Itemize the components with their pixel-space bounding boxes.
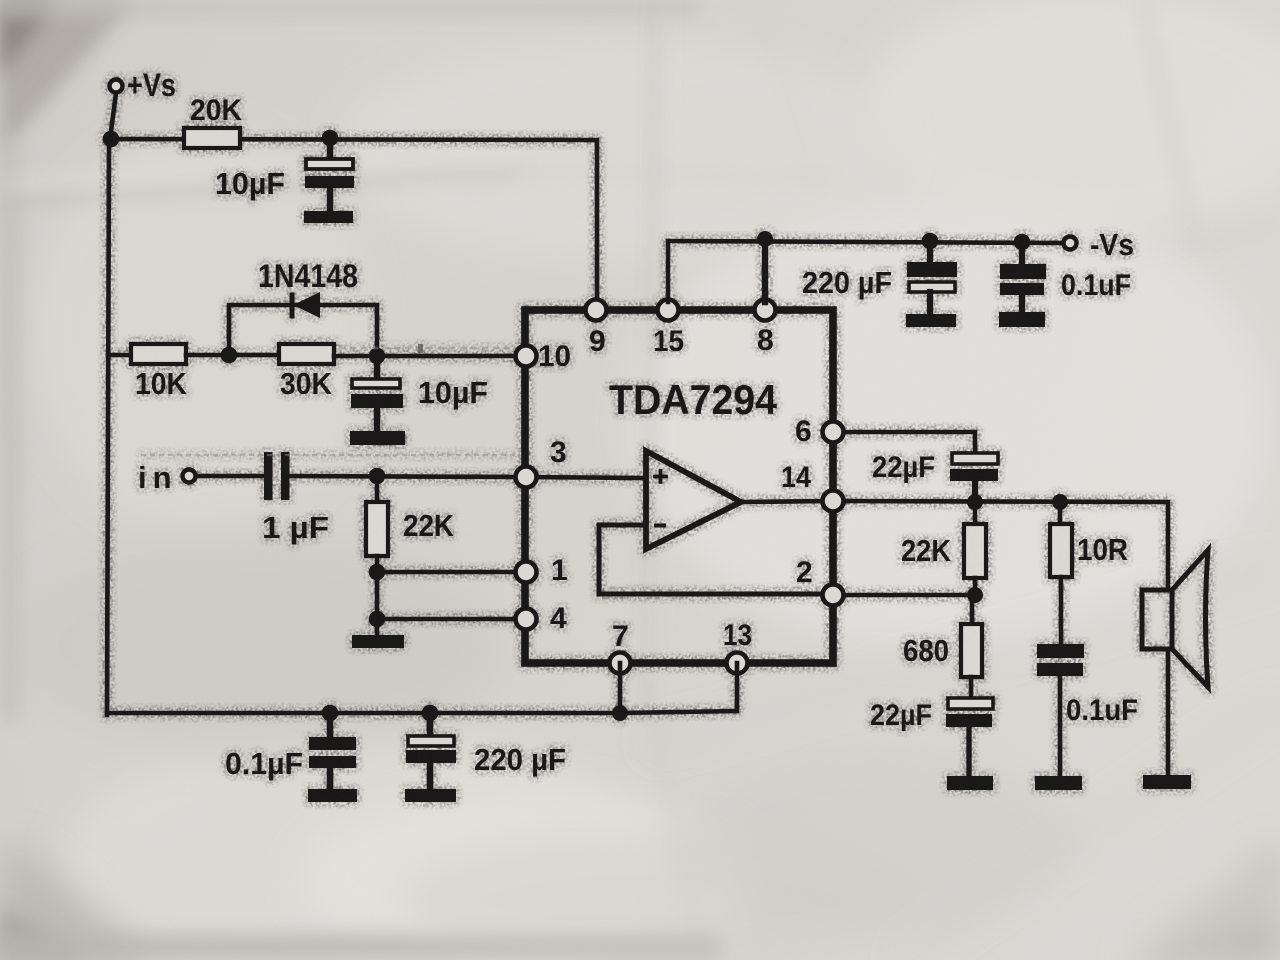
svg-text:in: in <box>138 460 178 495</box>
svg-text:10K: 10K <box>135 366 188 401</box>
resistor R6 10R vertical <box>1050 502 1072 644</box>
node junction C4 <box>922 233 939 250</box>
node junction pin8 / -Vs rail <box>757 231 773 247</box>
svg-text:15: 15 <box>653 325 684 358</box>
top-left corner shadow <box>0 0 135 155</box>
capacitor C1 10uF plates <box>305 139 354 211</box>
svg-text:10µF: 10µF <box>215 166 285 201</box>
wire pin6 to C6 <box>844 432 975 454</box>
capacitor C5 0.1uF <box>1000 242 1046 312</box>
label 22uF C6 <box>872 451 935 484</box>
label pin 2 <box>796 556 813 589</box>
svg-text:7: 7 <box>612 620 629 653</box>
resistor R7 680 vertical <box>961 595 982 698</box>
label 1uF <box>262 510 329 545</box>
wire pin8 drop (thick) <box>762 239 768 302</box>
node junction C10 <box>422 705 439 722</box>
label 22uF C7 <box>870 699 932 732</box>
pin 8 <box>755 300 776 321</box>
node junction C9 <box>322 705 339 722</box>
svg-text:TDA7294: TDA7294 <box>609 376 778 423</box>
wire C3 to pin3 <box>290 476 519 477</box>
wire pin7 drop <box>618 663 623 713</box>
resistor 10K <box>131 344 186 364</box>
wire pin3 to plus input <box>526 477 645 478</box>
svg-text:2: 2 <box>796 556 813 589</box>
label in <box>138 460 178 495</box>
wire 30K to pin10 <box>334 354 519 359</box>
label pin 13 <box>723 619 752 652</box>
label 0.1uF C5 <box>1061 269 1131 302</box>
wire pin14 to speaker rail <box>844 501 1168 590</box>
op-amp plus mark <box>655 471 666 482</box>
ground bar below C9 <box>308 789 357 802</box>
wire speaker to ground <box>1166 649 1171 776</box>
pin 2 <box>823 585 844 606</box>
pin 13 <box>727 653 748 674</box>
bottom edge band <box>0 934 720 960</box>
capacitor C2 10uF plates <box>351 356 403 432</box>
resistor R5 22K vertical <box>964 502 986 595</box>
capacitor C8 0.1uF <box>1037 644 1084 776</box>
capacitor C9 0.1uF <box>309 713 356 789</box>
wire -Vs rail horizontal <box>668 241 1063 243</box>
capacitor C3 1uF <box>264 452 290 500</box>
label pin 14 <box>781 461 811 494</box>
wire +Vs lead <box>110 93 116 139</box>
right top diagonal crease <box>1142 0 1196 246</box>
pin 10 <box>516 346 537 367</box>
label 20K <box>190 94 242 127</box>
node junction pin7 / bottom rail <box>612 705 628 721</box>
artifact dotted trail above pin10 wire <box>340 344 512 353</box>
label 10uF C1 <box>215 166 285 201</box>
svg-text:30K: 30K <box>280 366 333 401</box>
ground bar below C5 <box>999 312 1045 327</box>
label 10K <box>135 366 188 401</box>
op-amp U1a triangle <box>646 451 741 549</box>
label 22K R5 <box>901 533 952 568</box>
svg-text:9: 9 <box>589 325 606 358</box>
ground bar below C8 <box>1035 776 1082 790</box>
wire minus feedback loop to pin2 <box>599 525 830 594</box>
svg-text:13: 13 <box>723 619 752 652</box>
central vertical crease <box>648 0 656 700</box>
capacitor C10 220uF <box>406 713 456 789</box>
label pin 8 <box>757 324 774 357</box>
node junction diode right / C2 <box>369 348 386 365</box>
svg-text:680: 680 <box>903 633 949 668</box>
node junction pin1 wire <box>369 564 386 581</box>
pin 14 <box>823 491 844 512</box>
wire op-amp output to pin14 <box>741 501 832 502</box>
label 0.1uF C8 <box>1066 694 1138 727</box>
wire to pin1 <box>377 570 519 575</box>
wire pin13 drop <box>620 663 737 713</box>
wire in to C3 <box>196 474 264 479</box>
node junction diode left <box>221 347 238 364</box>
label pin 15 <box>653 325 684 358</box>
svg-text:+Vs: +Vs <box>127 67 176 103</box>
resistor R4 22K vertical <box>366 476 388 637</box>
ink layer <box>103 67 1208 802</box>
op-amp minus mark <box>656 524 664 528</box>
fold across upper left <box>0 170 520 200</box>
speaker LS1 <box>1142 550 1208 687</box>
node junction R5/680 <box>967 587 983 603</box>
node junction R6 10R on rail <box>1052 494 1068 510</box>
svg-text:10R: 10R <box>1077 532 1128 567</box>
wire bottom rail <box>107 711 620 716</box>
faint crease top middle <box>755 0 818 190</box>
IC U1 TDA7294 body <box>525 310 833 663</box>
diode D1 1N4148 <box>292 292 320 318</box>
ground bar below C10 <box>405 789 456 802</box>
svg-text:20K: 20K <box>190 94 242 127</box>
terminal in <box>183 470 196 483</box>
pin 15 <box>658 300 679 321</box>
svg-text:3: 3 <box>550 436 567 469</box>
node junction C5 <box>1014 234 1031 251</box>
node junction top rail / C1 <box>322 130 339 147</box>
label pin 10 <box>538 340 571 373</box>
svg-text:6: 6 <box>795 415 812 448</box>
svg-text:22K: 22K <box>403 508 455 543</box>
pin 1 <box>516 562 537 583</box>
svg-text:10: 10 <box>538 340 571 373</box>
label TDA7294 <box>609 376 778 423</box>
svg-text:22K: 22K <box>901 533 952 568</box>
label pin 4 <box>550 602 567 635</box>
artifact dotted trail above input wire <box>142 454 520 456</box>
ground bar below R4 <box>352 635 404 648</box>
svg-text:10µF: 10µF <box>418 375 488 410</box>
capacitor C7 22uF <box>946 698 993 776</box>
bottom-right creases <box>650 568 1280 745</box>
bottom-left corner shadow <box>0 848 150 960</box>
capacitor C6 22uF <box>950 453 998 503</box>
label 30K <box>280 366 333 401</box>
label 1N4148 <box>258 258 358 294</box>
pin 7 <box>610 653 631 674</box>
svg-text:1: 1 <box>551 554 568 587</box>
ground bar below speaker <box>1143 775 1191 789</box>
label pin 7 <box>612 620 629 653</box>
resistor 30K <box>279 344 334 364</box>
label 220uF C4 <box>802 265 892 300</box>
wire to pin4 <box>377 617 519 622</box>
resistor 20K <box>184 128 240 148</box>
svg-text:14: 14 <box>781 461 811 494</box>
label 680 <box>903 633 949 668</box>
wire mid rail 10K/30K row <box>108 353 131 358</box>
wire 10K to 30K <box>186 353 279 358</box>
label 0.1uF C9 <box>225 746 303 781</box>
pin 4 <box>516 609 537 630</box>
svg-text:220 µF: 220 µF <box>474 742 566 777</box>
node junction pin4 wire <box>369 611 386 628</box>
svg-text:1 µF: 1 µF <box>262 510 329 545</box>
svg-text:8: 8 <box>757 324 774 357</box>
terminal -Vs <box>1064 237 1077 250</box>
label 10R <box>1077 532 1128 567</box>
svg-text:1N4148: 1N4148 <box>258 258 358 294</box>
node junction C6/R5 on rail <box>967 494 983 510</box>
wire top rail <box>109 139 597 309</box>
capacitor C4 220uF <box>907 241 957 314</box>
pin 6 <box>823 422 844 443</box>
ground bar below C4 <box>906 314 956 327</box>
svg-text:22µF: 22µF <box>872 451 935 484</box>
svg-text:0.1µF: 0.1µF <box>225 746 303 781</box>
pin 3 <box>516 467 537 488</box>
svg-text:-Vs: -Vs <box>1090 227 1134 262</box>
label 220uF C10 <box>474 742 566 777</box>
label 10uF C2 <box>418 375 488 410</box>
label -Vs <box>1090 227 1134 262</box>
label pin 1 <box>551 554 568 587</box>
svg-text:220 µF: 220 µF <box>802 265 892 300</box>
svg-text:0.1uF: 0.1uF <box>1061 269 1131 302</box>
wire pin15 to -Vs rail <box>666 241 670 302</box>
node junction input / R4 <box>369 468 386 485</box>
svg-text:4: 4 <box>550 602 567 635</box>
label +Vs <box>127 67 176 103</box>
label pin 6 <box>795 415 812 448</box>
ground bar below C7 <box>947 776 993 790</box>
label pin 9 <box>589 325 606 358</box>
label pin 3 <box>550 436 567 469</box>
node junction left rail / top rail <box>103 131 120 148</box>
label 22K R4 <box>403 508 455 543</box>
pin 9 <box>586 300 607 321</box>
svg-text:22µF: 22µF <box>870 699 932 732</box>
wire left rail vertical <box>107 139 109 715</box>
ground bar below C2 <box>350 431 405 445</box>
ground bar below C1 <box>304 211 353 223</box>
wire diode loop <box>229 305 377 357</box>
wire pin2 to R5/R7 node <box>844 593 975 598</box>
svg-text:0.1uF: 0.1uF <box>1066 694 1138 727</box>
terminal +Vs <box>110 80 123 93</box>
